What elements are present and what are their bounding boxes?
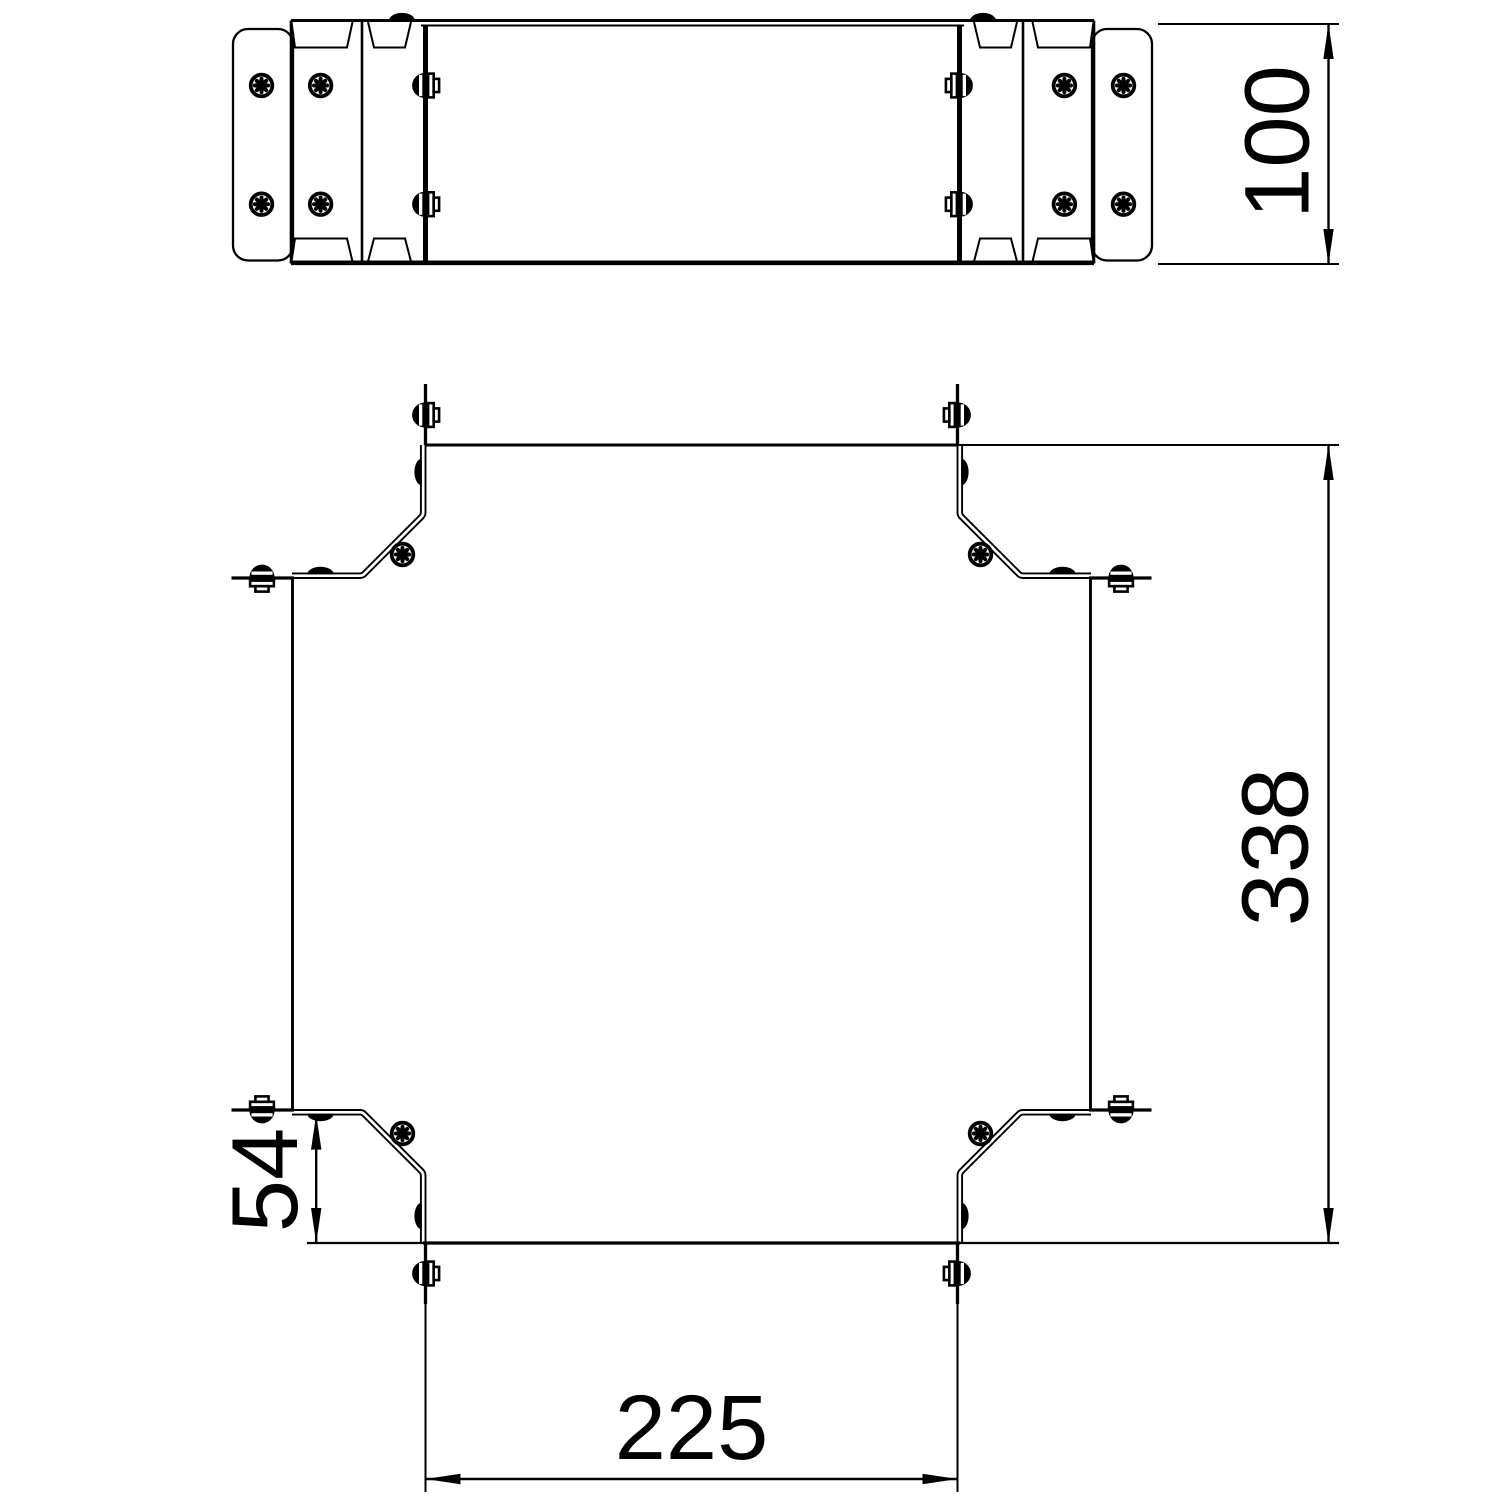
svg-text:225: 225	[615, 1377, 769, 1479]
svg-text:54: 54	[212, 1128, 317, 1233]
svg-text:338: 338	[1223, 768, 1329, 927]
svg-text:100: 100	[1227, 65, 1329, 219]
